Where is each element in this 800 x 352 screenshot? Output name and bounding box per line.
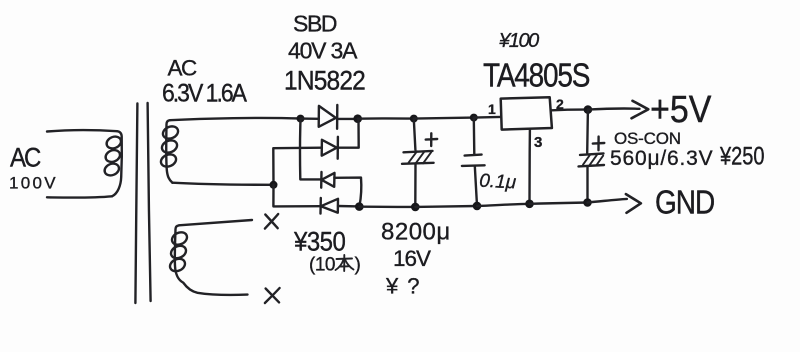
svg-text:8200μ: 8200μ	[381, 219, 451, 246]
svg-text:(10: (10	[309, 255, 335, 276]
capacitor C2 0.1u	[462, 118, 485, 206]
wire primary bottom lead	[47, 196, 112, 197]
label (10hon)	[309, 255, 361, 276]
capacitor C3 OS-CON	[579, 110, 605, 202]
node gnd cap2 junction dot	[473, 202, 482, 211]
diode D1	[319, 105, 338, 129]
wire secondary top lead to node A	[170, 118, 301, 120]
svg-text:+5V: +5V	[650, 87, 712, 130]
wire node B down to D4	[273, 185, 320, 207]
wire cap1 node to cap2 node	[414, 118, 474, 119]
svg-text:3: 3	[534, 134, 542, 151]
arrowhead +5V	[632, 101, 649, 119]
node D junction dot	[355, 202, 364, 211]
arrowhead GND	[626, 194, 641, 213]
svg-text:1: 1	[488, 101, 496, 117]
wire ground rail cap2 to pin3	[477, 204, 530, 206]
wire secondary bottom lead to node B	[172, 183, 273, 185]
svg-text:40V 3A: 40V 3A	[288, 38, 358, 64]
node top cap2 junction dot	[470, 114, 478, 122]
wire pin2 to +5V node	[552, 108, 588, 111]
inductor secondary bottom winding	[168, 225, 189, 282]
svg-text:¥250: ¥250	[719, 142, 764, 170]
wire D4 to node D	[338, 205, 359, 208]
node +5V junction dot	[584, 105, 593, 114]
node gnd cap1 junction dot	[411, 203, 420, 212]
node gnd pin3 junction dot	[525, 200, 534, 209]
svg-text:GND: GND	[655, 183, 714, 221]
wire D3 to node D	[334, 178, 361, 206]
wire ground rail pin3 to oscon	[530, 203, 588, 204]
svg-text:560μ/6.3V: 560μ/6.3V	[610, 147, 713, 170]
capacitor C1 8200u electrolytic	[402, 119, 434, 207]
node C junction dot	[353, 114, 362, 123]
svg-text:OS-CON: OS-CON	[614, 129, 681, 148]
node gnd oscon junction dot	[583, 198, 592, 207]
svg-text:0.1μ: 0.1μ	[479, 171, 517, 194]
wire secondary bottom bottom-lead to X	[184, 283, 248, 295]
svg-text:): )	[355, 255, 361, 276]
svg-text:AC: AC	[168, 56, 198, 81]
svg-text:AC: AC	[10, 143, 41, 173]
wire node A down to D3	[300, 120, 321, 179]
svg-text:TA4805S: TA4805S	[483, 56, 590, 94]
wire node A to D1	[301, 117, 319, 120]
wire ground rail cap1 to cap2	[415, 205, 477, 208]
wire pin3 down to ground rail	[528, 130, 531, 204]
wire +5V arrow line	[588, 108, 640, 109]
diode D3 (points left)	[321, 172, 334, 188]
wire D1 to node C	[337, 118, 357, 120]
X mark unused tap bottom	[265, 288, 280, 303]
svg-text:100V: 100V	[9, 174, 58, 193]
plus sign C1	[426, 133, 438, 146]
inductor secondary top winding	[159, 120, 180, 183]
wire D2 to node C	[338, 121, 359, 148]
diode D2	[322, 137, 338, 159]
node top cap1 junction dot	[410, 115, 418, 123]
transformer core line 1	[135, 104, 137, 304]
wire node C to cap1 node	[358, 117, 414, 120]
wire ground rail D to cap1	[359, 205, 415, 208]
transformer core line 2	[148, 103, 151, 301]
svg-text:1N5822: 1N5822	[284, 67, 365, 96]
X mark unused tap top	[265, 214, 278, 229]
inductor primary winding	[103, 131, 123, 196]
node A junction dot	[297, 115, 305, 123]
svg-text:SBD: SBD	[293, 11, 337, 37]
svg-text:16V: 16V	[393, 246, 431, 271]
wire secondary bottom top-lead to X	[179, 220, 252, 225]
svg-text:¥?: ¥?	[385, 274, 428, 299]
svg-text:6.3V 1.6A: 6.3V 1.6A	[162, 80, 248, 108]
wire node B up to D2	[273, 148, 322, 185]
plus sign C3	[593, 137, 605, 151]
wire GND arrow line	[588, 199, 627, 203]
svg-text:¥100: ¥100	[499, 30, 539, 52]
diode D4 (points left)	[321, 198, 339, 214]
kanji hon	[336, 255, 354, 271]
wire cap2 node to regulator pin1	[474, 116, 501, 119]
svg-text:¥350: ¥350	[293, 227, 346, 256]
wire primary top lead	[47, 130, 117, 131]
regulator U1 TA4805S box	[501, 97, 552, 129]
node B junction dot	[270, 181, 278, 189]
